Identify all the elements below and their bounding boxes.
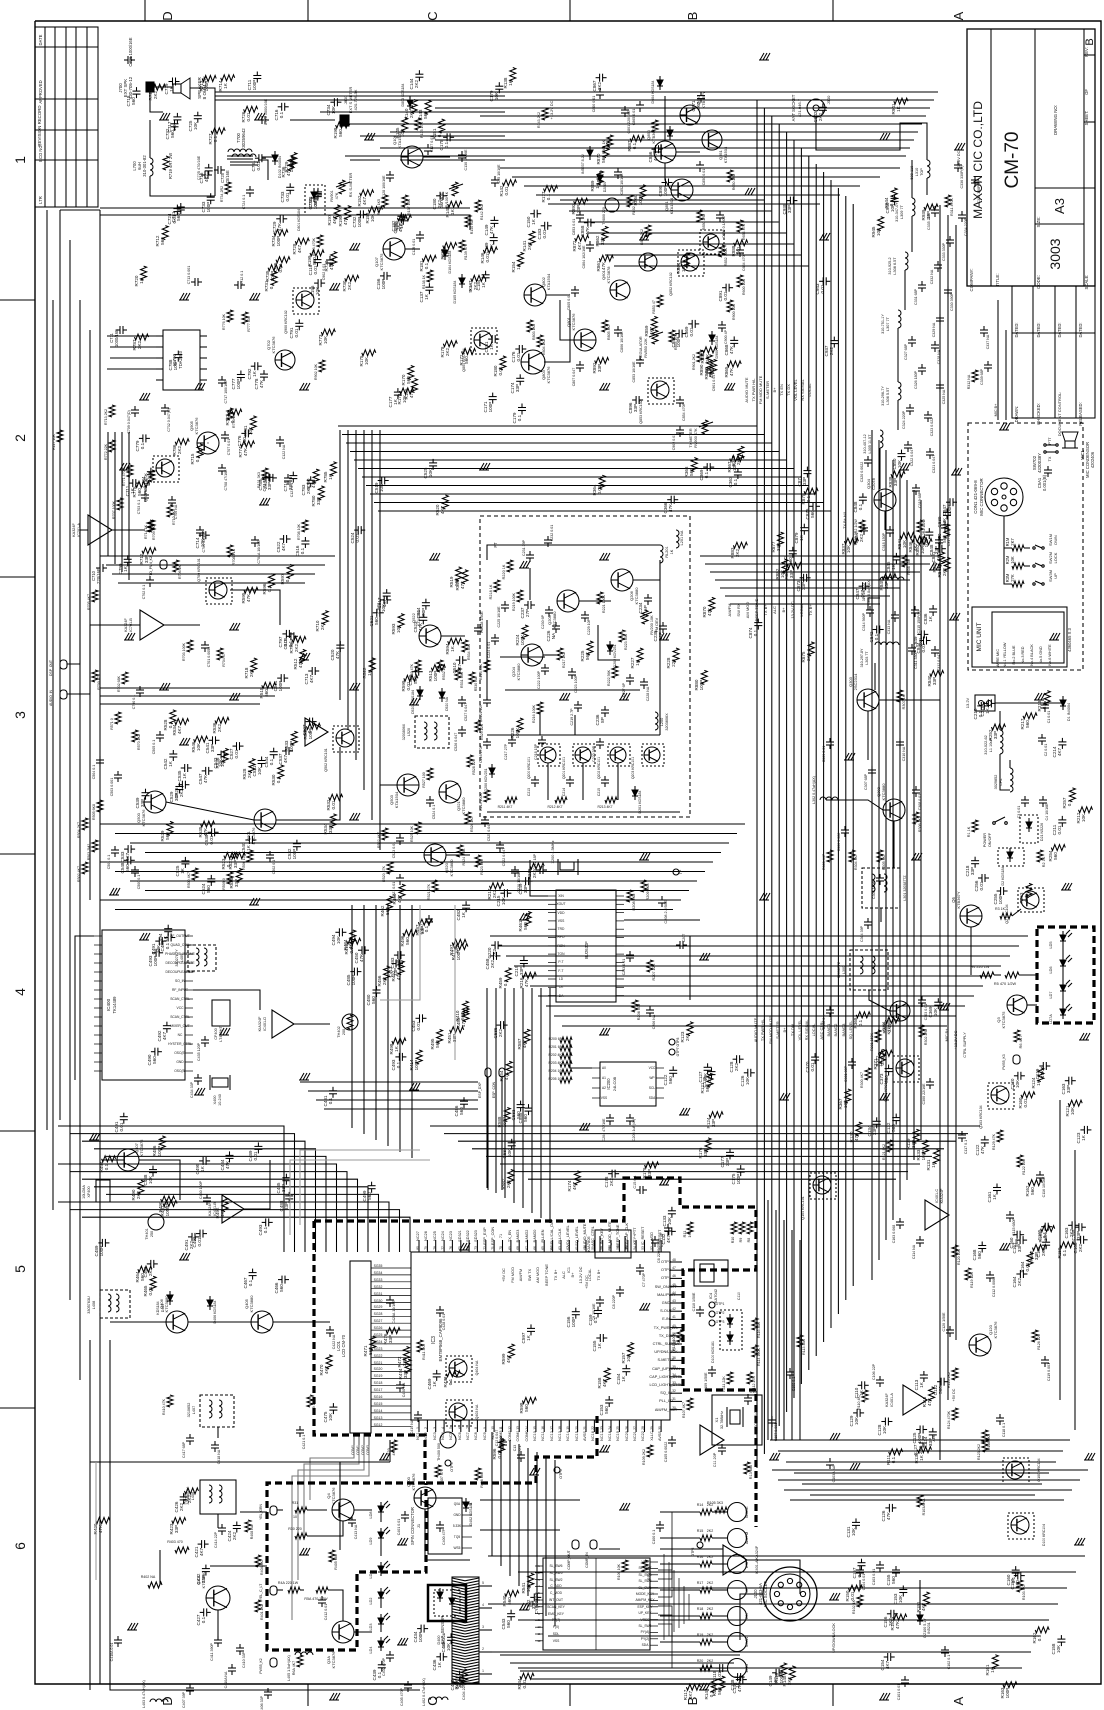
svg-text:COM2: COM2	[508, 1431, 512, 1442]
svg-text:2K2: 2K2	[859, 533, 864, 542]
svg-text:1K: 1K	[481, 281, 486, 288]
transistor Q100 KRC104 dashed	[1006, 1461, 1024, 1479]
wire right low vertical	[1059, 1100, 1061, 1400]
svg-text:1K: 1K	[621, 1375, 626, 1382]
filler resistor R540 560	[505, 1590, 519, 1596]
filler capacitor C468 2K2	[150, 1260, 152, 1268]
svg-text:C215: C215	[597, 788, 601, 796]
svg-text:10K: 10K	[323, 335, 328, 344]
filler capacitor C848 33P	[935, 539, 943, 541]
svg-text:R113 33K: R113 33K	[802, 1339, 806, 1355]
capacitor C700 0.1	[136, 689, 144, 691]
ground	[220, 1028, 224, 1035]
filler resistor R461 560	[525, 912, 531, 926]
diode D651 KDS184	[667, 130, 673, 136]
resistor R6A 4K7	[297, 1655, 303, 1667]
capacitor C725 470/16E	[204, 171, 206, 179]
svg-text:R411 3K9: R411 3K9	[422, 1344, 426, 1360]
svg-text:NC14: NC14	[566, 1431, 570, 1441]
svg-text:C428 0.01: C428 0.01	[442, 1314, 446, 1331]
resistor R17 key UP	[700, 1587, 712, 1593]
bus left horizontals y690	[100, 687, 290, 689]
filler resistor R411 100P	[454, 944, 468, 950]
svg-text:D200 KDV251: D200 KDV251	[484, 769, 488, 792]
svg-text:C300 22/16E: C300 22/16E	[922, 1083, 926, 1105]
svg-text:R503 2M2: R503 2M2	[87, 844, 91, 861]
svg-text:33P: 33P	[403, 1370, 408, 1378]
svg-text:310-297-8Y: 310-297-8Y	[860, 648, 864, 667]
filler resistor R472 33P	[404, 1347, 410, 1361]
resistor R522 4K7	[382, 828, 388, 840]
capacitor C412 0.01	[318, 1599, 326, 1601]
svg-text:IC400: IC400	[106, 998, 111, 1011]
svg-text:2K2: 2K2	[707, 1529, 713, 1533]
filler capacitor C453 0.01	[419, 1014, 421, 1022]
svg-text:10K: 10K	[379, 483, 384, 492]
svg-text:10.240: 10.240	[218, 1094, 222, 1106]
capacitor C120 1/50E	[946, 1329, 954, 1331]
capacitor C308 0.01	[912, 789, 920, 791]
filler capacitor C733 100P	[207, 196, 215, 198]
filler capacitor C789 2K2	[265, 473, 267, 481]
filler capacitor C153 560	[605, 1399, 613, 1401]
zone tick left 3/4	[0, 853, 35, 855]
svg-text:1K: 1K	[445, 250, 450, 257]
svg-text:IN5231: IN5231	[927, 1622, 931, 1634]
crystal X400 10.240	[212, 1078, 228, 1087]
filler capacitor C541 33P	[212, 736, 214, 744]
filler resistor R850 560	[944, 524, 950, 538]
transistor Q520 KTC3880	[424, 844, 446, 866]
capacitor C313 NA	[891, 614, 899, 616]
svg-text:4K7: 4K7	[309, 674, 314, 683]
capacitor C319 68P	[912, 487, 920, 489]
capacitor C654 470P	[736, 249, 744, 251]
svg-text:HYSTER_CTRL: HYSTER_CTRL	[168, 1042, 192, 1046]
svg-text:2K2: 2K2	[437, 199, 442, 208]
svg-text:100P: 100P	[381, 279, 386, 290]
transistor Q522 KTA1504	[419, 625, 441, 647]
svg-text:100P: 100P	[414, 1060, 419, 1071]
svg-text:4K7: 4K7	[391, 1448, 396, 1456]
filler resistor R890 0.1	[706, 355, 712, 369]
svg-text:C232 0.01: C232 0.01	[550, 525, 554, 542]
filler capacitor C540 1K	[248, 836, 250, 844]
filler capacitor C543 10K	[220, 751, 222, 759]
svg-text:OSC(E): OSC(E)	[174, 1051, 186, 1055]
filler capacitor C530 0.01	[211, 828, 213, 836]
svg-text:1K: 1K	[526, 1334, 531, 1341]
svg-text:VSS: VSS	[553, 1639, 560, 1643]
svg-text:28: 28	[641, 1426, 645, 1430]
filler resistor R595 47K	[244, 587, 258, 593]
svg-text:10K: 10K	[395, 958, 400, 967]
filler capacitor C178 0.1	[446, 133, 448, 141]
svg-text:NC16: NC16	[591, 1431, 595, 1441]
filler resistor R175 10K	[362, 350, 376, 356]
filler resistor R538 33P	[236, 868, 242, 882]
svg-text:C310 NA: C310 NA	[902, 746, 906, 761]
filler resistor R365 2K2	[738, 446, 744, 460]
gray routing wires	[300, 1150, 420, 1225]
resistor R308 150	[902, 555, 908, 567]
mic unit wire list box	[972, 607, 1067, 667]
filler capacitor C511 100P	[280, 674, 282, 682]
capacitor C726 1000/16E	[261, 116, 263, 124]
svg-text:COM0: COM0	[525, 1431, 529, 1442]
svg-text:APPROVED: APPROVED	[38, 80, 43, 103]
svg-text:CF400: CF400	[214, 1028, 218, 1039]
diode bridge D400 N2S226 box	[428, 1585, 466, 1621]
resistor R520 47K	[387, 862, 393, 874]
svg-text:3029852: 3029852	[994, 775, 998, 790]
resistor R804 2K2	[537, 335, 543, 347]
filler capacitor C938 33P	[789, 197, 791, 205]
resistor R410 47K	[167, 1395, 173, 1407]
capacitor C302 0.1	[826, 1009, 834, 1011]
svg-text:4K7: 4K7	[921, 1602, 926, 1611]
svg-text:R526 2K7: R526 2K7	[470, 816, 474, 832]
resistor R802 150	[627, 195, 633, 207]
svg-text:TITLE:: TITLE:	[995, 273, 1000, 286]
filler capacitor C851 2K2	[860, 527, 868, 529]
capacitor C314 560P	[866, 609, 874, 611]
svg-text:SG35: SG35	[374, 1264, 383, 1268]
filler capacitor C484 47K	[226, 1154, 234, 1156]
wire bottom led feeds	[210, 1565, 267, 1567]
transistor Q502 KRC101 dashed	[336, 729, 354, 747]
svg-text:CK: CK	[559, 985, 564, 989]
filler resistor R414 100P	[416, 1050, 422, 1064]
filler resistor R523 0.1	[224, 853, 238, 859]
svg-text:0.1: 0.1	[546, 193, 551, 200]
svg-text:L303 7T: L303 7T	[865, 651, 869, 665]
lcd COM pins	[353, 1433, 355, 1445]
svg-text:11: 11	[499, 1426, 503, 1430]
capacitor C1 0.01	[1041, 704, 1049, 706]
resistor R209 8K8	[641, 880, 647, 892]
svg-text:XOUT: XOUT	[556, 902, 565, 906]
dashed coil L409 3202762Y	[188, 945, 216, 971]
filler capacitor C597 1K	[527, 1327, 535, 1329]
filler capacitor C718 560	[133, 90, 141, 92]
svg-text:R140 NA: R140 NA	[470, 219, 474, 234]
capacitor C526 0.047	[458, 729, 466, 731]
capacitor C325 NA	[936, 384, 944, 386]
svg-text:47K: 47K	[225, 1160, 230, 1169]
resistor R776 10K	[227, 310, 233, 322]
svg-text:C206 NA: C206 NA	[652, 1014, 656, 1029]
svg-text:560: 560	[689, 468, 694, 476]
filler capacitor C532 100P	[293, 843, 301, 845]
filler resistor R123 2K2	[687, 1022, 693, 1036]
svg-text:KTC3880: KTC3880	[164, 1295, 169, 1313]
resistor R116 33K	[752, 1318, 758, 1330]
filler capacitor C127 10K	[704, 1066, 712, 1068]
capacitor C902b 0.01	[676, 429, 684, 431]
svg-text:10K: 10K	[1070, 1106, 1075, 1115]
filler capacitor C871 33P	[803, 470, 811, 472]
filler capacitor C535 1K	[184, 764, 186, 772]
svg-text:R208 2K2: R208 2K2	[632, 894, 636, 911]
svg-text:1K: 1K	[508, 79, 513, 86]
capacitor C724 0.1	[246, 189, 254, 191]
svg-text:33P: 33P	[1076, 1231, 1081, 1239]
svg-text:D21 N5226: D21 N5226	[1040, 823, 1044, 841]
wires IC400 area	[75, 936, 94, 1080]
svg-text:1K: 1K	[992, 1193, 997, 1200]
filler capacitor C155 560	[892, 1569, 900, 1571]
filler capacitor C177 1K	[394, 391, 402, 393]
svg-text:R201 680: R201 680	[549, 1045, 564, 1049]
svg-text:3210652: 3210652	[187, 1403, 191, 1418]
svg-text:C114 NA: C114 NA	[912, 1244, 916, 1259]
svg-text:560: 560	[523, 1114, 528, 1122]
svg-text:24: 24	[608, 1426, 612, 1430]
wire ic5 to keys	[658, 1512, 688, 1570]
svg-text:100P: 100P	[173, 360, 178, 371]
filler capacitor C467 0.1	[249, 1272, 257, 1274]
svg-text:R212 4K7: R212 4K7	[547, 805, 562, 809]
svg-text:10K: 10K	[526, 1583, 531, 1592]
svg-text:R704 47: R704 47	[222, 653, 226, 667]
filler capacitor C510 4K7	[459, 656, 461, 664]
svg-text:C4 10/16E: C4 10/16E	[1045, 803, 1049, 821]
svg-text:100P: 100P	[204, 81, 209, 92]
svg-text:R108 3K9: R108 3K9	[987, 1434, 991, 1450]
svg-text:PY(A): PY(A)	[641, 1630, 650, 1634]
svg-text:4K7: 4K7	[653, 152, 658, 161]
filler resistor R121 560	[707, 1073, 713, 1087]
filler resistor R535 47K	[201, 821, 215, 827]
svg-text:R10: R10	[731, 1237, 735, 1244]
svg-text:560: 560	[524, 1404, 529, 1412]
svg-text:CAP_LIGHT_CTRL: CAP_LIGHT_CTRL	[649, 1375, 682, 1379]
wire led chain	[380, 1516, 382, 1522]
svg-text:NC6: NC6	[458, 1432, 462, 1440]
filler capacitor C943 0.01	[822, 277, 824, 285]
capacitor C336 330P(D)	[954, 164, 962, 166]
svg-text:C525 0.047: C525 0.047	[487, 823, 491, 842]
svg-text:TX: TX	[1048, 456, 1052, 461]
filler capacitor C517 4K7	[383, 592, 391, 594]
svg-text:R14: R14	[697, 1503, 704, 1507]
ground	[880, 133, 884, 140]
filler capacitor C156 100P	[572, 1311, 580, 1313]
svg-text:10K: 10K	[328, 1412, 333, 1421]
filler resistor R790 47K	[313, 469, 319, 483]
svg-text:310-407-12: 310-407-12	[863, 434, 867, 453]
svg-text:R302 2R2: R302 2R2	[924, 1029, 928, 1045]
zener D21 N5226 dashed	[1020, 815, 1038, 843]
bus horizontal mid-left	[100, 823, 745, 825]
resistor R135 27K	[415, 118, 421, 130]
svg-text:R502 4K7: R502 4K7	[77, 866, 81, 882]
transistor Q3A KTC3876	[332, 1621, 354, 1643]
svg-text:DATE: DATE	[38, 34, 43, 45]
filler capacitor C126 47K	[888, 1504, 890, 1512]
ground	[350, 243, 354, 250]
filler resistor R410 560	[463, 1001, 469, 1015]
filler capacitor C491 2K2	[191, 1233, 193, 1241]
capacitor C708 47/16E	[218, 467, 226, 469]
svg-text:0.1: 0.1	[328, 1097, 333, 1104]
svg-text:R103 4K7: R103 4K7	[1022, 1584, 1026, 1600]
transistor Q101 KRC101 dashed bottom-right	[1011, 1516, 1029, 1534]
diode D520 NA	[439, 692, 445, 698]
transistor Q4 KTC3876	[332, 1499, 354, 1521]
svg-text:C222 100P: C222 100P	[537, 670, 541, 689]
svg-text:PLL/EN: PLL/EN	[541, 1229, 545, 1242]
svg-text:KTC3876: KTC3876	[251, 827, 256, 845]
ground regulator cluster	[745, 188, 749, 195]
svg-text:NC7: NC7	[466, 1432, 470, 1440]
capacitor C8 220P	[616, 1289, 624, 1291]
svg-text:R900 10K: R900 10K	[732, 303, 736, 320]
svg-text:S-OUT: S-OUT	[660, 1309, 672, 1313]
filler resistor R530 0.1	[278, 765, 284, 779]
svg-text:NC12: NC12	[550, 1431, 554, 1441]
capacitor C405 470P	[404, 1684, 412, 1686]
svg-text:REVISION RECORD: REVISION RECORD	[37, 105, 42, 146]
svg-text:100P: 100P	[676, 337, 681, 348]
svg-text:KTC3878: KTC3878	[606, 266, 611, 284]
svg-text:X400: X400	[213, 1096, 217, 1105]
filler capacitor C779 0.1	[142, 434, 144, 442]
ground	[1000, 423, 1004, 430]
bold dashed led lamp box	[1037, 927, 1094, 1023]
resistor R217 2K2	[557, 648, 563, 660]
resistor R122 100	[1017, 1155, 1023, 1167]
switch SW1M DWN	[1035, 545, 1042, 548]
svg-text:R522 4K7: R522 4K7	[377, 832, 381, 848]
ground dtmf	[830, 1433, 834, 1440]
filler capacitor C711 100P	[253, 75, 261, 77]
resistor R15 key AM/FM	[700, 1535, 712, 1541]
svg-text:R143 2K2: R143 2K2	[537, 112, 541, 128]
svg-text:A2: A2	[602, 1086, 606, 1090]
svg-text:R525 10K: R525 10K	[410, 825, 414, 842]
capacitor C329 NA	[936, 317, 944, 319]
ground speaker	[160, 113, 164, 120]
svg-text:R702 68K: R702 68K	[117, 675, 121, 692]
ic IC400 TK14489 body	[102, 930, 185, 1080]
op-amp IC701-B KA324F	[140, 610, 164, 640]
filler capacitor C132 560	[892, 1117, 900, 1119]
svg-text:560: 560	[367, 1192, 372, 1200]
capacitor C320 0.0022	[864, 459, 872, 461]
svg-text:S-METER: S-METER	[765, 381, 770, 399]
svg-text:560: 560	[884, 1075, 889, 1083]
transistor Q801 KTC3876	[574, 329, 596, 351]
capacitor C231 39P	[526, 554, 534, 556]
capacitor C223 100P	[568, 671, 576, 673]
svg-text:R410 47K: R410 47K	[162, 1398, 166, 1415]
svg-text:27K: 27K	[1010, 574, 1015, 582]
filler capacitor C731 0.01	[258, 154, 260, 162]
resistor R121 8K2	[887, 1140, 893, 1152]
capacitor C103A NA	[826, 1461, 834, 1463]
capacitor C327 68P	[908, 339, 916, 341]
filler resistor R423 33P	[172, 1518, 186, 1524]
svg-text:2: 2	[482, 1647, 484, 1651]
filler capacitor C171 100P	[489, 396, 497, 398]
svg-text:C315 150P(D): C315 150P(D)	[917, 611, 921, 634]
svg-text:C301 39P: C301 39P	[844, 1065, 848, 1082]
svg-text:10K: 10K	[898, 1594, 903, 1603]
switch POWER ON/OFF	[995, 817, 1005, 822]
filler capacitor C940 10K	[891, 197, 899, 199]
svg-text:R216 100K: R216 100K	[532, 704, 536, 723]
filler resistor R533 100P	[291, 731, 297, 745]
capacitor C805 0.01	[571, 289, 579, 291]
svg-text:R805 4K7: R805 4K7	[607, 324, 611, 340]
svg-text:10K: 10K	[315, 286, 320, 295]
svg-text:L306 5.5T: L306 5.5T	[886, 387, 890, 405]
svg-text:20: 20	[575, 1426, 579, 1430]
filler capacitor C526 2K2	[181, 781, 183, 789]
svg-text:2K2: 2K2	[818, 112, 823, 121]
transistor Q302 KTC3880	[883, 799, 905, 821]
svg-text:NC20: NC20	[625, 1431, 629, 1441]
svg-text:32: 32	[672, 1389, 676, 1393]
filler capacitor C148 1K	[737, 1673, 739, 1681]
svg-text:27: 27	[633, 1426, 637, 1430]
filler resistor R865 47K	[727, 361, 741, 367]
filler resistor R782 0.1	[228, 409, 242, 415]
svg-text:C700 0.1: C700 0.1	[132, 695, 136, 710]
transistor Q852 KRC102 dashed	[681, 253, 699, 271]
ic KIA7805 regulator Q5	[595, 1230, 631, 1258]
filler resistor R157 10K	[628, 1343, 634, 1357]
filler capacitor C544 0.1	[270, 751, 278, 753]
filler capacitor C114 33P	[929, 1431, 937, 1433]
svg-text:C207: C207	[682, 934, 686, 943]
bus vertical center low	[486, 988, 488, 1188]
svg-text:C103A NA: C103A NA	[832, 1465, 836, 1482]
filler resistor R841 10K	[900, 533, 914, 539]
filler resistor R519 560	[456, 567, 462, 581]
resistor R222 56K	[612, 666, 618, 678]
svg-text:TOP: TOP	[920, 168, 924, 176]
svg-text:47K: 47K	[98, 1524, 103, 1533]
svg-text:0.1: 0.1	[267, 585, 272, 592]
svg-text:C654 470P: C654 470P	[742, 252, 746, 271]
svg-text:47K: 47K	[895, 1620, 900, 1629]
svg-text:R6A 4K7: R6A 4K7	[292, 1661, 296, 1675]
svg-text:3203806X: 3203806X	[402, 723, 406, 740]
bold dashed led enclosure	[267, 1483, 426, 1650]
svg-text:560: 560	[717, 1687, 722, 1695]
resistor R714 1K	[149, 520, 155, 532]
svg-text:C230 6P: C230 6P	[541, 614, 545, 629]
svg-text:R709 4K7: R709 4K7	[152, 524, 156, 540]
svg-text:R17: R17	[697, 1581, 704, 1585]
svg-text:0.1: 0.1	[248, 1279, 253, 1286]
svg-text:SIZE:: SIZE:	[1036, 217, 1041, 228]
svg-text:33P: 33P	[144, 555, 149, 563]
ground	[230, 623, 234, 630]
filler capacitor C866 4K7	[655, 145, 657, 153]
filler resistor R875 2K2	[808, 642, 814, 656]
svg-text:LD5: LD5	[1049, 942, 1053, 949]
filler resistor R464 560	[138, 1266, 152, 1272]
filler capacitor C486 560	[460, 1100, 468, 1102]
svg-text:10K: 10K	[843, 1099, 848, 1108]
filler capacitor C716 0.1	[281, 103, 283, 111]
svg-text:C702 0.1: C702 0.1	[142, 585, 146, 600]
filler resistor R526 47K	[462, 570, 468, 584]
